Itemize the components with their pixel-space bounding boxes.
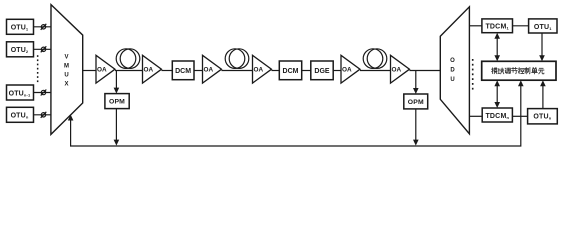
wire VMUX to OA1: [83, 70, 96, 72]
svg-text:V: V: [64, 55, 68, 61]
OTUn-1 transmitter box (left): [7, 85, 34, 100]
op-amp OA3 optical amplifier: [203, 55, 222, 83]
OTUn receiver box (right): [528, 109, 558, 124]
wire OA5 to OA6 (under fiber coil 3): [360, 70, 391, 72]
char 模: [492, 68, 498, 74]
fiber coil 3: [363, 49, 387, 69]
control unit box (module adjustment control unit): [482, 61, 556, 80]
op-amp OA4 optical amplifier: [253, 55, 272, 83]
svg-text:OTUn: OTUn: [11, 113, 29, 120]
op-amp OA6 optical amplifier: [391, 55, 410, 83]
OTU2 transmitter box (left): [7, 42, 34, 57]
svg-text:DCM: DCM: [283, 68, 299, 75]
OTU1 receiver box (right): [529, 19, 557, 33]
char 节: [512, 67, 518, 73]
wire DCM1 to OA3: [194, 70, 203, 72]
DCM1 dispersion compensation box: [172, 61, 194, 80]
double arrow control unit to TDCMn: [494, 80, 500, 108]
op-amp OA1 optical amplifier: [96, 55, 115, 83]
tap wire down to OPM2 with arrow: [413, 71, 419, 95]
wire OA1 to OA2 (under fiber coil 1): [115, 70, 143, 72]
svg-text:OA: OA: [97, 67, 107, 74]
wire ODU to TDCM1: [469, 25, 482, 27]
char 块: [498, 68, 504, 74]
svg-text:OTUn-1: OTUn-1: [9, 90, 31, 97]
fiber coil 2: [225, 49, 249, 69]
attenuator on OTUn wire: [41, 112, 47, 118]
tap wire down to OPM1 with arrow: [114, 71, 120, 94]
svg-text:D: D: [450, 68, 455, 74]
svg-text:U: U: [450, 77, 454, 83]
wire TDCMn to OTUn (crosses feedback bus): [512, 115, 527, 117]
DGE dynamic gain equalizer box: [311, 61, 333, 80]
op-amp OA5 optical amplifier: [341, 55, 360, 83]
svg-text:OA: OA: [254, 67, 264, 74]
attenuator on OTU1 wire: [41, 24, 47, 30]
attenuator on OTUn-1 wire: [41, 90, 47, 96]
arrow OTU1r down to control unit: [539, 33, 545, 61]
ellipsis dots between OTU2 and OTUn-1: [37, 55, 39, 82]
ellipsis dots right of ODU: [472, 59, 474, 90]
arrow OTUn up to control unit: [540, 80, 546, 108]
wire OPM1 down to feedback bus with arrow: [114, 109, 120, 146]
wire OTUn-1 to VMUX: [34, 92, 52, 94]
svg-text:OTUn: OTUn: [533, 114, 551, 121]
svg-text:OA: OA: [204, 67, 214, 74]
double arrow TDCM1 to control unit: [494, 33, 500, 62]
VMUX multiplexer trapezoid: [51, 5, 83, 135]
wire TDCM1 to OTU1r: [513, 25, 529, 27]
svg-text:DGE: DGE: [314, 68, 330, 75]
wire OTU2 to VMUX: [34, 48, 52, 50]
wire DCM2 to DGE: [302, 70, 311, 72]
svg-text:OTU2: OTU2: [11, 47, 29, 54]
svg-text:TDCM1: TDCM1: [485, 24, 509, 31]
char 控: [518, 68, 524, 74]
OTU1 transmitter box (left): [7, 19, 34, 34]
svg-text:OTU1: OTU1: [534, 24, 552, 31]
ODU demultiplexer trapezoid: [440, 7, 469, 134]
char 制: [525, 67, 530, 74]
chinese text: module adjustment control unit (hand drawn strokes): [492, 67, 545, 74]
wire DGE to OA5: [333, 70, 341, 72]
OTUn transmitter box (left): [7, 107, 34, 122]
char 元: [538, 68, 544, 74]
feedback bus: control unit down, across bottom, up into VMUX: [68, 80, 524, 146]
svg-text:OA: OA: [392, 67, 402, 74]
svg-text:O: O: [450, 58, 455, 64]
wire OPM2 down to feedback bus with arrow: [413, 109, 419, 146]
fiber coil 1: [116, 49, 140, 69]
svg-text:DCM: DCM: [175, 68, 191, 75]
wire OA2 to DCM1: [162, 70, 173, 72]
OPM2 monitor box: [404, 94, 428, 109]
svg-text:OPM: OPM: [408, 99, 424, 106]
svg-text:U: U: [64, 73, 68, 79]
op-amp OA2 optical amplifier: [143, 55, 162, 83]
attenuator on OTU2 wire: [41, 46, 47, 52]
wire OA4 to DCM2: [272, 70, 280, 72]
TDCMn tunable dispersion module box: [482, 108, 512, 122]
svg-text:TDCMn: TDCMn: [485, 113, 509, 120]
DCM2 dispersion compensation box: [279, 61, 301, 80]
svg-text:OPM: OPM: [109, 99, 125, 106]
OPM1 monitor box: [105, 94, 129, 109]
svg-text:OTU1: OTU1: [11, 25, 29, 32]
svg-text:OA: OA: [342, 67, 352, 74]
text label VMUX vertical: [64, 55, 69, 88]
svg-text:M: M: [64, 64, 69, 70]
text label ODU vertical: [450, 58, 455, 83]
char 调: [505, 68, 510, 73]
wire OA6 to ODU: [410, 70, 441, 72]
char 单: [532, 67, 538, 74]
wire OTU1 to VMUX: [34, 26, 52, 28]
svg-text:X: X: [64, 82, 68, 88]
svg-text:OA: OA: [144, 67, 154, 74]
wire ODU to TDCMn: [469, 115, 482, 117]
TDCM1 tunable dispersion module box: [482, 19, 513, 33]
wire OTUn to VMUX: [34, 114, 52, 116]
wire OA3 to OA4 (under fiber coil 2): [222, 70, 253, 72]
